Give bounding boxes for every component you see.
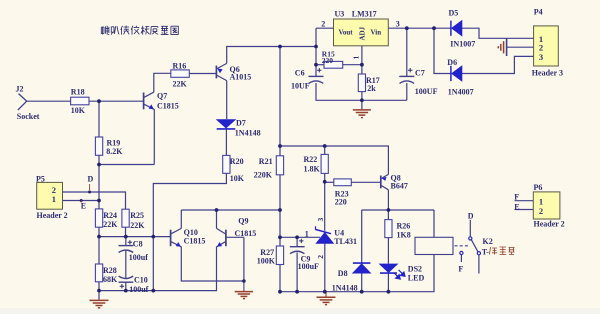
svg-text:Q9: Q9 <box>238 216 248 225</box>
svg-text:10UF: 10UF <box>291 82 310 91</box>
svg-text:P4: P4 <box>534 8 543 17</box>
svg-text:1K8: 1K8 <box>397 230 411 239</box>
svg-text:C7: C7 <box>415 69 425 78</box>
svg-text:1: 1 <box>52 194 56 204</box>
svg-text:68K: 68K <box>103 275 118 284</box>
svg-text:R24: R24 <box>103 211 117 220</box>
svg-text:F: F <box>458 264 463 273</box>
svg-text:U3: U3 <box>335 10 345 19</box>
svg-text:2k: 2k <box>367 84 376 93</box>
svg-text:1.8K: 1.8K <box>304 165 321 174</box>
svg-text:C1815: C1815 <box>157 102 179 111</box>
svg-text:P5: P5 <box>36 174 45 183</box>
svg-text:22K: 22K <box>130 221 145 230</box>
svg-text:P6: P6 <box>534 183 543 192</box>
svg-text:T-: T- <box>482 248 490 257</box>
svg-text:100UF: 100UF <box>415 87 438 96</box>
svg-text:1N4007: 1N4007 <box>448 87 474 96</box>
svg-text:22K: 22K <box>103 220 118 229</box>
svg-text:1: 1 <box>305 229 309 238</box>
svg-text:D7: D7 <box>236 119 246 128</box>
svg-text:R22: R22 <box>304 155 318 164</box>
svg-text:220K: 220K <box>254 170 273 179</box>
svg-text:22K: 22K <box>173 80 188 89</box>
svg-text:C6: C6 <box>295 69 305 78</box>
svg-text:8.2K: 8.2K <box>106 147 123 156</box>
svg-text:100uf: 100uf <box>129 285 148 294</box>
svg-text:R25: R25 <box>130 211 144 220</box>
svg-text:E: E <box>81 201 86 210</box>
svg-text:Header 3: Header 3 <box>532 69 563 78</box>
svg-text:C8: C8 <box>133 240 143 249</box>
svg-text:R18: R18 <box>71 88 85 97</box>
svg-text:Vin: Vin <box>371 29 382 37</box>
svg-text:R19: R19 <box>107 138 121 147</box>
svg-text:Header 2: Header 2 <box>37 211 68 220</box>
svg-text:D8: D8 <box>338 269 348 278</box>
svg-text:2: 2 <box>321 20 325 29</box>
svg-text:ADJ: ADJ <box>359 26 367 40</box>
svg-text:LM317: LM317 <box>352 9 377 18</box>
svg-text:100uF: 100uF <box>298 262 319 271</box>
svg-text:1N4148: 1N4148 <box>332 283 358 292</box>
svg-text:E: E <box>514 202 519 211</box>
svg-text:IN1007: IN1007 <box>450 40 475 49</box>
svg-text:A1015: A1015 <box>230 73 252 82</box>
svg-text:1N4148: 1N4148 <box>235 129 261 138</box>
svg-text:D6: D6 <box>447 58 457 67</box>
svg-text:F: F <box>514 193 519 202</box>
svg-text:B647: B647 <box>391 182 408 191</box>
svg-text:J2: J2 <box>16 85 24 94</box>
svg-text:K2: K2 <box>483 237 493 246</box>
svg-text:2: 2 <box>539 206 543 216</box>
svg-text:C1815: C1815 <box>235 229 257 238</box>
svg-text:LED: LED <box>408 274 425 283</box>
svg-text:100uf: 100uf <box>129 253 148 262</box>
svg-text:C1815: C1815 <box>184 236 206 245</box>
svg-text:R26: R26 <box>397 221 411 230</box>
svg-text:220: 220 <box>322 56 334 65</box>
svg-text:1: 1 <box>351 56 360 60</box>
svg-text:R20: R20 <box>230 157 244 166</box>
svg-text:Q7: Q7 <box>157 92 167 101</box>
svg-text:3: 3 <box>396 20 400 29</box>
svg-text:Vout: Vout <box>339 29 354 37</box>
svg-text:10K: 10K <box>230 174 245 183</box>
svg-text:Header 2: Header 2 <box>534 220 565 229</box>
svg-text:R28: R28 <box>103 266 117 275</box>
svg-text:3: 3 <box>316 218 325 222</box>
svg-text:D: D <box>468 211 474 220</box>
svg-text:R16: R16 <box>173 61 187 70</box>
svg-text:D5: D5 <box>449 9 459 18</box>
svg-text:C10: C10 <box>134 275 148 284</box>
svg-text:D: D <box>88 175 94 184</box>
svg-text:DS2: DS2 <box>408 264 422 273</box>
svg-text:2: 2 <box>316 255 325 259</box>
svg-text:R21: R21 <box>259 157 273 166</box>
svg-text:100K: 100K <box>257 256 276 265</box>
svg-text:Socket: Socket <box>17 112 40 121</box>
svg-text:TL431: TL431 <box>334 237 357 246</box>
svg-text:3: 3 <box>539 52 543 62</box>
svg-text:10K: 10K <box>71 106 86 115</box>
svg-text:220: 220 <box>335 198 347 207</box>
